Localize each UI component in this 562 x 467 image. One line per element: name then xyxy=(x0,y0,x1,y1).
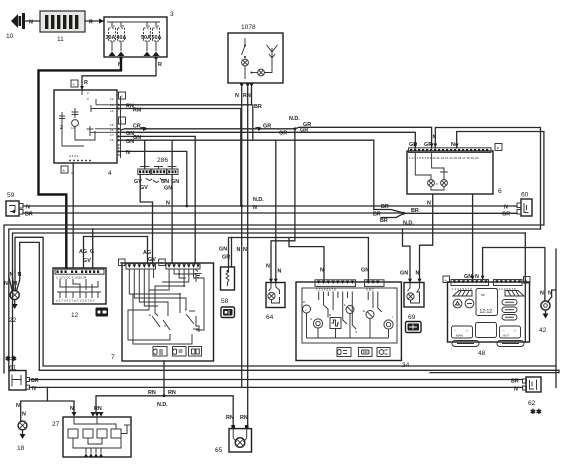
svg-text:N.D.: N.D. xyxy=(289,116,300,122)
svg-text:14: 14 xyxy=(110,109,114,113)
svg-text:N: N xyxy=(16,403,20,409)
junction 61 xyxy=(5,355,39,392)
svg-text:10: 10 xyxy=(71,126,75,130)
svg-text:AG: AG xyxy=(79,249,87,255)
temp sensor 42 xyxy=(539,290,556,334)
instrument cluster 34 xyxy=(296,280,410,369)
svg-text:6: 6 xyxy=(498,188,502,195)
wire RN from 1078 down to lamp 65 xyxy=(243,88,251,426)
courtesy lamp 65 xyxy=(215,415,252,454)
svg-text:40A: 40A xyxy=(117,35,127,41)
brake switch 58 xyxy=(219,238,235,318)
wire N into 34 xyxy=(289,238,324,281)
wires AG G into 12 xyxy=(79,229,156,268)
svg-text:✱✱: ✱✱ xyxy=(5,355,17,363)
svg-text:B: B xyxy=(63,169,65,173)
svg-text:F: F xyxy=(436,182,438,186)
connector 60 xyxy=(502,192,532,218)
svg-text:34: 34 xyxy=(402,362,410,369)
wire N from 1078 to N bus xyxy=(235,88,247,388)
wire GN from 286 down to 7 xyxy=(171,175,173,264)
branch to 18 and 27 xyxy=(16,387,74,421)
svg-text:BR: BR xyxy=(373,212,381,218)
svg-text:GV: GV xyxy=(148,257,156,263)
svg-text:GV: GV xyxy=(140,185,148,191)
svg-text:2: 2 xyxy=(87,97,89,101)
svg-text:GR: GR xyxy=(300,127,308,133)
battery 11 xyxy=(40,11,85,43)
heater controls 27 xyxy=(52,406,131,457)
wire from 4 bottom to 12 xyxy=(72,163,74,268)
svg-text:N: N xyxy=(29,20,33,26)
svg-text:N: N xyxy=(235,93,239,99)
svg-text:+: + xyxy=(305,308,307,312)
frame line 3 xyxy=(13,233,526,371)
mid horizontal line xyxy=(230,237,368,239)
svg-text:N: N xyxy=(26,204,30,210)
connector 59 xyxy=(6,192,33,217)
svg-text:42: 42 xyxy=(539,327,547,334)
svg-text:+: + xyxy=(466,329,468,333)
svg-text:AUT: AUT xyxy=(503,334,509,338)
interior lamp switch 1078 xyxy=(228,24,283,88)
svg-text:a 1 7 0 4 2 7 a C 3 2 0 1 8: a 1 7 0 4 2 7 a C 3 2 0 1 8 3 xyxy=(56,299,95,303)
svg-text:48: 48 xyxy=(478,350,486,357)
wire R from fuse D to ignition 4 xyxy=(80,57,162,91)
svg-text:2: 2 xyxy=(87,91,89,95)
svg-text:BR: BR xyxy=(380,218,388,224)
svg-text:C 12 V CC 4 10 50 34: C 12 V CC 4 10 50 34 xyxy=(56,276,87,280)
svg-text:✱✱: ✱✱ xyxy=(530,408,542,416)
svg-text:B: B xyxy=(122,24,124,28)
wire N thick from fuse B down-left-down to 12 xyxy=(39,57,123,269)
svg-text:10: 10 xyxy=(6,33,14,40)
svg-text:N: N xyxy=(22,412,26,418)
svg-text:F: F xyxy=(344,303,346,307)
svg-text:12: 12 xyxy=(110,97,114,101)
RN bus 27 to 65 xyxy=(96,361,233,425)
svg-text:60: 60 xyxy=(521,192,529,199)
svg-text:RM: RM xyxy=(133,108,142,114)
svg-text:4 3 2 1: 4 3 2 1 xyxy=(69,154,79,158)
svg-text:65: 65 xyxy=(215,447,223,454)
ignition switch 4 xyxy=(54,80,126,177)
svg-text:2: 2 xyxy=(60,125,63,131)
wire CR/GR from 4 to junction xyxy=(121,124,295,132)
svg-text:RN: RN xyxy=(240,415,248,421)
svg-text:59: 59 xyxy=(7,192,15,199)
svg-text:N: N xyxy=(126,150,130,156)
wire GR down from junction to 64 line xyxy=(271,129,295,283)
svg-text:I: I xyxy=(392,315,393,319)
svg-text:N: N xyxy=(4,281,8,287)
svg-text:50A: 50A xyxy=(152,35,162,41)
svg-text:BR: BR xyxy=(254,104,262,110)
light switch 7 xyxy=(111,259,214,361)
ground lamp 18 xyxy=(17,421,27,452)
hazard switch 69 xyxy=(400,194,433,333)
svg-text:GV: GV xyxy=(83,258,91,264)
svg-text:R: R xyxy=(158,62,162,68)
svg-text:RN: RN xyxy=(226,415,234,421)
wire RN from 4 to 1078 xyxy=(121,103,252,109)
svg-text:N.D.: N.D. xyxy=(157,402,168,408)
wire to 64 pin2 xyxy=(275,140,277,282)
dimmer 12 xyxy=(53,268,108,319)
wire GN into 34 xyxy=(361,238,369,281)
svg-text:58: 58 xyxy=(221,298,229,305)
svg-text:BR: BR xyxy=(25,211,33,217)
svg-text:CR: CR xyxy=(133,124,141,130)
BR bottom bus 61 to 62 xyxy=(30,379,523,381)
svg-text:E: E xyxy=(363,309,365,313)
frame line 2 xyxy=(9,229,541,371)
svg-text:M: M xyxy=(13,281,18,287)
svg-text:N: N xyxy=(10,272,14,278)
GR junction N.D. xyxy=(289,116,432,148)
svg-text:17: 17 xyxy=(110,133,114,137)
svg-text:3: 3 xyxy=(170,11,174,18)
svg-text:N: N xyxy=(70,406,74,412)
climate control 48 xyxy=(443,276,530,357)
svg-text:R: R xyxy=(89,20,93,26)
loop over 12 to lamp 22 xyxy=(15,237,43,370)
switch lamp 64 xyxy=(266,264,285,322)
svg-text:GN: GN xyxy=(361,268,369,274)
fuse box 3 xyxy=(104,11,174,57)
wire GN3 from 4 long line xyxy=(121,139,374,145)
svg-text:N: N xyxy=(540,291,544,297)
BR bus xyxy=(23,204,517,227)
bottom frame lines xyxy=(43,365,556,367)
svg-text:12:12: 12:12 xyxy=(480,309,493,315)
wires into 48 xyxy=(464,194,545,298)
svg-text:27: 27 xyxy=(52,421,60,428)
instrument panel 6 xyxy=(407,144,502,196)
svg-text:22: 22 xyxy=(9,317,17,324)
N bottom bus 61 to 62 xyxy=(30,386,523,388)
svg-text:B: B xyxy=(329,313,331,317)
svg-text:N: N xyxy=(266,264,270,270)
svg-text:N: N xyxy=(278,269,282,275)
svg-text:7: 7 xyxy=(111,354,115,361)
svg-text:B: B xyxy=(497,146,499,150)
wire RN/BR from 1078 pin3 xyxy=(252,88,262,141)
wire RM from 4 down to N bus xyxy=(121,108,241,207)
svg-text:N: N xyxy=(427,200,431,206)
svg-text:N: N xyxy=(18,272,22,278)
wire R to fusebox xyxy=(85,20,104,22)
svg-text:1 2 3 4 5 6 7 8: 1 2 3 4 5 6 7 8 xyxy=(316,288,336,292)
N bus xyxy=(23,197,517,211)
wire N from 4 to N bus xyxy=(121,150,189,207)
svg-text:N: N xyxy=(243,247,247,253)
svg-text:N: N xyxy=(237,247,241,253)
svg-text:18: 18 xyxy=(17,445,25,452)
right frame vertical xyxy=(555,249,557,387)
svg-text:AG: AG xyxy=(143,250,151,256)
svg-text:MAN: MAN xyxy=(456,334,463,338)
svg-text:GR: GR xyxy=(263,124,271,130)
svg-text:1078: 1078 xyxy=(241,24,256,31)
frame line 1 xyxy=(4,225,544,373)
connector 62 xyxy=(511,377,542,416)
svg-text:286: 286 xyxy=(157,157,168,164)
svg-text:30A: 30A xyxy=(106,35,116,41)
svg-text:GN: GN xyxy=(219,247,227,253)
panel 6 pin wires xyxy=(409,128,544,230)
svg-text:N: N xyxy=(320,268,324,274)
svg-text:18: 18 xyxy=(110,138,114,142)
svg-text:R: R xyxy=(84,80,88,86)
svg-text:BR: BR xyxy=(381,204,389,210)
svg-text:4: 4 xyxy=(108,170,112,177)
svg-text:N: N xyxy=(253,205,257,211)
svg-text:A B C: A B C xyxy=(366,288,375,292)
svg-text:GR: GR xyxy=(279,131,287,137)
svg-text:RN: RN xyxy=(168,390,176,396)
svg-text:RN: RN xyxy=(94,406,102,412)
svg-text:BR: BR xyxy=(511,379,519,385)
svg-text:15: 15 xyxy=(110,123,114,127)
svg-text:11: 11 xyxy=(57,36,64,43)
wire GN2 from 4 to switch 7 xyxy=(121,135,196,264)
svg-text:1 2 3 4 5 6 7 8 9 10 11 12 13: 1 2 3 4 5 6 7 8 9 10 11 12 13 14 15 16 1… xyxy=(409,156,479,160)
svg-text:E: E xyxy=(149,313,151,317)
svg-text:88: 88 xyxy=(481,293,485,297)
ground 10 xyxy=(6,13,40,40)
svg-text:RN: RN xyxy=(148,390,156,396)
svg-text:12: 12 xyxy=(71,312,79,319)
svg-text:B: B xyxy=(120,261,122,265)
connector 286 xyxy=(134,140,179,191)
svg-text:BR: BR xyxy=(411,208,419,214)
svg-text:N: N xyxy=(514,387,518,393)
wire GV from 286 down to 7 xyxy=(140,175,152,264)
lamp 22 xyxy=(4,272,22,324)
svg-text:62: 62 xyxy=(528,400,536,407)
svg-text:N.D.: N.D. xyxy=(253,197,264,203)
svg-text:GN: GN xyxy=(164,186,172,192)
svg-text:N: N xyxy=(166,200,170,206)
svg-text:G: G xyxy=(90,249,94,255)
wire GN1 from 4 to panel 6 pin7 xyxy=(121,122,416,148)
svg-text:50A: 50A xyxy=(141,35,151,41)
svg-text:GN: GN xyxy=(400,271,408,277)
svg-text:B: B xyxy=(525,279,527,283)
svg-text:N: N xyxy=(504,204,508,210)
svg-text:RN: RN xyxy=(243,93,251,99)
frame line 3 right leg xyxy=(524,233,526,342)
svg-text:GN: GN xyxy=(126,139,134,145)
svg-text:F: F xyxy=(185,308,187,312)
wire BR path to BR junction xyxy=(373,140,375,209)
svg-text:N: N xyxy=(451,142,455,148)
svg-text:GR: GR xyxy=(502,211,510,217)
svg-text:64: 64 xyxy=(266,314,274,321)
svg-text:69: 69 xyxy=(408,314,416,321)
svg-text:+: + xyxy=(514,329,516,333)
